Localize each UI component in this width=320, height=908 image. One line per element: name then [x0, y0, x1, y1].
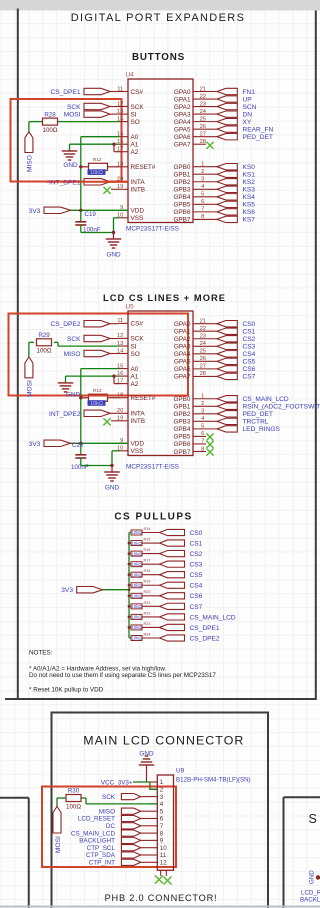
svg-text:GPB3: GPB3 — [173, 419, 190, 426]
pin 17 A2 — [119, 383, 129, 385]
svg-text:CS_MAIN_LCD: CS_MAIN_LCD — [190, 614, 236, 621]
wire A0 — [81, 136, 119, 138]
net flag KS5 — [217, 201, 237, 207]
net flag MOSI — [110, 113, 119, 115]
svg-text:GPA5: GPA5 — [174, 359, 191, 366]
wire R28 to MISO flag — [29, 121, 43, 123]
svg-text:TRCTRL: TRCTRL — [243, 419, 269, 426]
pin 15 A0 — [119, 368, 129, 370]
net flag CS_DPE1 — [110, 91, 119, 93]
svg-text:CS6: CS6 — [190, 593, 203, 600]
wire to flag — [142, 584, 160, 586]
op-amp/IC U5 body — [128, 311, 193, 456]
svg-text:GPA6: GPA6 — [174, 366, 191, 373]
sheet 1 frame left border — [17, 9, 19, 701]
svg-text:CS PULLUPS: CS PULLUPS — [114, 512, 192, 523]
svg-text:CS1: CS1 — [243, 329, 256, 336]
net flag CS_DPE2 — [110, 323, 119, 325]
svg-text:100Ω: 100Ω — [66, 803, 81, 810]
no-connect X on GPA7 — [206, 142, 213, 149]
svg-text:CS2: CS2 — [190, 551, 203, 558]
resistor R16 10k pullup — [129, 553, 131, 555]
net flag MISO (connector) — [141, 810, 149, 812]
svg-text:GPA5: GPA5 — [174, 126, 191, 133]
svg-text:LED_RINGS: LED_RINGS — [243, 426, 281, 433]
junction GND — [112, 231, 115, 234]
net flag CS5 — [217, 358, 237, 364]
net flag CTP_SDA (connector) — [141, 854, 149, 856]
wire C19 to GND — [81, 232, 114, 234]
wire to flag — [142, 574, 160, 576]
svg-text:R20: R20 — [144, 590, 151, 594]
svg-text:GPB5: GPB5 — [173, 202, 190, 209]
resistor R12 10k reset pullup — [81, 166, 89, 168]
no-connect X marks on mounting pins — [155, 876, 163, 884]
svg-text:MAIN LCD CONNECTOR: MAIN LCD CONNECTOR — [83, 734, 244, 748]
svg-text:R13: R13 — [93, 388, 102, 393]
svg-text:CS5: CS5 — [190, 572, 203, 579]
highlight box section 2 — [9, 314, 189, 396]
svg-text:MOSI: MOSI — [64, 112, 81, 119]
svg-text:U5: U5 — [126, 304, 135, 311]
net flag CS_MAIN_LCD (connector) — [141, 832, 149, 834]
svg-text:CS#: CS# — [131, 89, 144, 96]
svg-text:KS3: KS3 — [243, 187, 256, 194]
net flag CS5 (pullup) — [160, 572, 185, 578]
svg-text:6: 6 — [160, 816, 164, 823]
resistor R22 10k pullup — [129, 616, 131, 618]
resistor R24 10k pullup — [129, 637, 131, 639]
svg-text:GPB6: GPB6 — [173, 209, 190, 216]
svg-text:4: 4 — [160, 801, 164, 808]
sheet 2 frame right border — [267, 712, 269, 908]
svg-text:VCC_3V3+: VCC_3V3+ — [101, 779, 133, 786]
bracket wire A1-A2 — [113, 144, 115, 152]
resistor R15 10k pullup — [129, 542, 131, 544]
svg-text:CS1: CS1 — [190, 540, 203, 547]
svg-text:R12: R12 — [93, 157, 102, 162]
net flag 3V3 (section1) — [71, 209, 129, 211]
neighbour sheet frame bottom-left — [0, 797, 29, 799]
svg-text:GPB4: GPB4 — [173, 426, 190, 433]
pin 19 INTB — [119, 420, 129, 422]
svg-text:A2: A2 — [131, 149, 139, 156]
bracket wire A1-A2 (U5) — [113, 376, 115, 384]
svg-text:GND: GND — [106, 252, 121, 259]
svg-text:A1: A1 — [131, 373, 139, 380]
svg-text:GPA1: GPA1 — [174, 96, 191, 103]
net flag CS7 — [217, 373, 237, 379]
svg-text:SCK: SCK — [131, 104, 145, 111]
svg-text:GPB3: GPB3 — [173, 187, 190, 194]
highlight box section 4 — [42, 787, 176, 868]
ground symbol near A1 — [62, 150, 78, 152]
highlighted wire INT_DPE1 to pin 20 INTA — [84, 181, 128, 183]
svg-text:DIGITAL PORT EXPANDERS: DIGITAL PORT EXPANDERS — [71, 12, 246, 24]
svg-text:10kΩ: 10kΩ — [90, 401, 103, 407]
wire A1 to GND (U5) — [66, 375, 120, 377]
svg-text:GPA3: GPA3 — [174, 111, 191, 118]
svg-text:KS6: KS6 — [243, 209, 256, 216]
svg-text:A1: A1 — [131, 142, 139, 149]
pin 12 SCK — [119, 337, 129, 339]
svg-text:CS_MAIN_LCD: CS_MAIN_LCD — [71, 830, 116, 837]
pin 17 A2 — [119, 151, 129, 153]
svg-text:CTP_SDA: CTP_SDA — [86, 852, 116, 859]
no-connect X on GPB5 — [206, 433, 213, 440]
svg-text:CS4: CS4 — [243, 351, 256, 358]
svg-text:BACKLIGHT: BACKLIGHT — [79, 838, 115, 845]
svg-text:RESET#: RESET# — [131, 164, 156, 171]
svg-text:R30: R30 — [68, 788, 80, 795]
svg-text:GPB5: GPB5 — [173, 434, 190, 441]
svg-text:CS_DPE1: CS_DPE1 — [190, 625, 220, 632]
highlight box section 1 — [11, 99, 122, 182]
net flag CTP_INT (connector) — [141, 861, 149, 863]
mounting stubs S1 S2 — [160, 870, 162, 876]
pin 12 SCK — [119, 106, 129, 108]
svg-text:MCP23S17T-E/SS: MCP23S17T-E/SS — [126, 226, 179, 233]
svg-text:GPA2: GPA2 — [174, 336, 191, 343]
wire to flag — [142, 626, 160, 628]
svg-text:CS5: CS5 — [243, 359, 256, 366]
svg-text:R19: R19 — [144, 580, 151, 584]
svg-text:GPB4: GPB4 — [173, 194, 190, 201]
net flag INT_DPE2 — [110, 412, 119, 414]
net flag KS7 — [217, 216, 237, 222]
sheet 1 frame right border — [315, 11, 317, 700]
svg-text:KS7: KS7 — [243, 217, 256, 224]
net flag DN — [217, 111, 237, 117]
svg-text:CS_DPE1: CS_DPE1 — [50, 89, 80, 96]
svg-text:INTB: INTB — [131, 418, 146, 425]
svg-text:B12B-PH-SM4-TB(LF)(SN): B12B-PH-SM4-TB(LF)(SN) — [176, 777, 251, 784]
svg-text:SO: SO — [131, 119, 140, 126]
net flag LED_RINGS — [217, 426, 237, 432]
svg-text:R17: R17 — [144, 559, 151, 563]
window bottom edge — [0, 906, 320, 908]
net flag CS3 (pullup) — [160, 561, 185, 567]
svg-text:SCK: SCK — [67, 336, 81, 343]
net flag KS3 — [217, 186, 237, 192]
sheet 2 frame left border — [51, 712, 53, 908]
svg-text:GPB6: GPB6 — [173, 441, 190, 448]
svg-text:SCK: SCK — [67, 104, 81, 111]
svg-text:10kΩ: 10kΩ — [131, 625, 142, 630]
resistor R28 — [43, 118, 58, 125]
resistor R20 10k pullup — [129, 595, 131, 597]
junction on A1 — [112, 143, 115, 146]
connector U9 body — [157, 775, 173, 870]
svg-text:DN: DN — [243, 111, 253, 118]
svg-text:11: 11 — [160, 852, 167, 859]
pin 6 of U9 — [149, 818, 157, 820]
net flag CS4 — [217, 351, 237, 357]
pin 9 of U9 — [149, 839, 157, 841]
svg-text:Do not need to use them if usi: Do not need to use them if using separat… — [29, 672, 216, 679]
pin 8 of U9 — [149, 832, 157, 834]
wire to flag — [142, 595, 160, 597]
net flag REAR_FN — [217, 126, 237, 132]
pin 1 of U9 — [149, 781, 157, 783]
net flag CS_DPE2 (pullup) — [160, 635, 185, 641]
svg-text:10kΩ: 10kΩ — [131, 530, 142, 535]
svg-text:5: 5 — [160, 808, 164, 815]
pin 4 of U9 — [149, 803, 157, 805]
op-amp/IC U4 body — [128, 79, 193, 223]
wire VSS down — [114, 217, 120, 219]
pin 11 CS# — [119, 322, 129, 324]
svg-text:A0: A0 — [131, 366, 139, 373]
svg-text:CS_DPE2: CS_DPE2 — [190, 635, 220, 642]
no-connect X on GPB6 — [206, 441, 213, 448]
svg-text:CS6: CS6 — [243, 366, 256, 373]
svg-text:3: 3 — [160, 794, 164, 801]
svg-text:GPA7: GPA7 — [174, 374, 191, 381]
svg-text:PED_DET: PED_DET — [243, 134, 273, 141]
pin 3 of U9 — [149, 796, 157, 798]
svg-text:RESET#: RESET# — [131, 395, 156, 402]
svg-text:GND: GND — [66, 392, 81, 399]
resistor R18 10k pullup — [129, 574, 131, 576]
svg-text:DC: DC — [106, 823, 116, 830]
net flag PED_DET — [217, 133, 237, 139]
net flag SCK (connector) — [141, 796, 149, 798]
net flag CS6 — [217, 366, 237, 372]
ground symbol section1 bottom — [113, 233, 115, 239]
svg-text:KS1: KS1 — [243, 172, 256, 179]
resistor R17 10k pullup — [129, 563, 131, 565]
net flag SCK — [110, 106, 119, 108]
svg-text:SCN: SCN — [243, 104, 257, 111]
svg-text:VDD: VDD — [131, 441, 145, 448]
svg-text:R22: R22 — [144, 611, 151, 615]
svg-text:GPB0: GPB0 — [173, 164, 190, 171]
svg-text:SO: SO — [131, 351, 140, 358]
svg-text:U4: U4 — [126, 72, 135, 79]
svg-text:GPA4: GPA4 — [174, 351, 191, 358]
svg-text:GPA6: GPA6 — [174, 134, 191, 141]
svg-text:R18: R18 — [144, 569, 151, 573]
svg-text:CS2: CS2 — [243, 336, 256, 343]
svg-text:MISO: MISO — [27, 155, 34, 172]
net flag KS4 — [217, 194, 237, 200]
svg-text:CS7: CS7 — [243, 374, 256, 381]
net flag FN1 — [217, 88, 237, 94]
svg-text:1: 1 — [160, 779, 164, 786]
junction VDD rail — [79, 209, 82, 212]
net flag CS1 (pullup) — [160, 540, 185, 546]
svg-text:10kΩ: 10kΩ — [131, 572, 142, 577]
svg-text:R21: R21 — [144, 601, 151, 605]
resistor R14 10k pullup — [129, 532, 131, 534]
net flag CS1 — [217, 328, 237, 334]
svg-text:SI: SI — [131, 343, 137, 350]
svg-text:CS0: CS0 — [190, 530, 203, 537]
svg-text:GPA0: GPA0 — [174, 321, 191, 328]
svg-text:CS4: CS4 — [190, 583, 203, 590]
net flag KS1 — [217, 171, 237, 177]
resistor R13 10k reset pullup (U5) — [81, 397, 89, 399]
pin 7 of U9 — [149, 825, 157, 827]
svg-text:R14: R14 — [144, 527, 151, 531]
svg-text:3V3: 3V3 — [61, 587, 73, 594]
no-connect X on GPB7 — [206, 448, 213, 455]
pin 18 RESET# — [119, 166, 129, 168]
pin 15 A0 — [119, 136, 129, 138]
svg-text:10kΩ: 10kΩ — [131, 551, 142, 556]
3V3 bus for pullups — [128, 533, 130, 639]
svg-text:SI: SI — [131, 111, 137, 118]
svg-text:SCK: SCK — [102, 794, 116, 801]
ground symbol near A1 (U5) — [58, 382, 74, 384]
svg-text:NOTES:: NOTES: — [29, 650, 53, 657]
pin 10 VSS — [119, 217, 129, 219]
resistor R29 — [29, 341, 34, 343]
svg-text:BACKLIGHT: BACKLIGHT — [300, 897, 320, 904]
svg-text:R16: R16 — [144, 548, 151, 552]
svg-text:CS#: CS# — [131, 321, 144, 328]
highlighted net INT_DPE1 overlay — [46, 181, 128, 183]
resistor R21 10k pullup — [129, 605, 131, 607]
net flag 3V3 (pullups) — [103, 589, 129, 591]
svg-text:CS_MAIN_LCD: CS_MAIN_LCD — [243, 396, 289, 403]
pin 2 of U9 — [149, 788, 157, 790]
svg-text:VSS: VSS — [131, 215, 144, 222]
svg-text:CS3: CS3 — [243, 344, 256, 351]
net flag INT_DPE1 — [84, 179, 110, 185]
pin 20 INTA — [119, 412, 129, 414]
svg-text:U9: U9 — [176, 768, 185, 775]
svg-text:INT_DPE2: INT_DPE2 — [49, 411, 81, 418]
svg-text:GPB0: GPB0 — [173, 396, 190, 403]
junction RESET pullup — [79, 165, 82, 168]
svg-text:LCD_RESET: LCD_RESET — [301, 890, 320, 897]
net flag CS0 (pullup) — [160, 529, 185, 535]
net flag CS_MAIN_LCD (pullup) — [160, 614, 185, 620]
svg-text:* Reset 10K pullup to VDD: * Reset 10K pullup to VDD — [29, 687, 104, 694]
wire A0 (U5) — [81, 368, 119, 370]
svg-text:10kΩ: 10kΩ — [131, 594, 142, 599]
net flag MOSI (vertical, connector) — [53, 807, 61, 834]
svg-text:GPB2: GPB2 — [173, 411, 190, 418]
svg-text:10kΩ: 10kΩ — [90, 170, 103, 176]
pin 13 SI — [119, 345, 129, 347]
svg-text:GPB2: GPB2 — [173, 179, 190, 186]
svg-text:GPB1: GPB1 — [173, 404, 190, 411]
svg-text:R28: R28 — [44, 112, 56, 119]
svg-text:R15: R15 — [144, 537, 151, 541]
no-connect X on INTB — [111, 188, 119, 190]
net flag UP — [217, 96, 237, 102]
svg-text:FN1: FN1 — [243, 89, 256, 96]
net flag SCK (section2) — [110, 338, 119, 340]
pin 10 of U9 — [149, 847, 157, 849]
svg-text:CTP_SCL: CTP_SCL — [87, 845, 116, 852]
resistor R23 10k pullup — [129, 626, 131, 628]
net flag DC (connector) — [141, 825, 149, 827]
svg-text:C20: C20 — [72, 442, 84, 449]
svg-text:GPA1: GPA1 — [174, 329, 191, 336]
junction RESET pullup (U5) — [79, 396, 82, 399]
svg-text:KS2: KS2 — [243, 179, 256, 186]
svg-text:INTA: INTA — [131, 179, 146, 186]
svg-text:10kΩ: 10kΩ — [131, 562, 142, 567]
capacitor C20 — [80, 443, 82, 454]
resistor R19 10k pullup — [129, 584, 131, 586]
net flag MISO (section2) — [110, 353, 119, 355]
net flag TRCTRL — [217, 418, 237, 424]
svg-text:BUTTONS: BUTTONS — [132, 52, 185, 63]
wire C20 to GND — [81, 465, 112, 467]
net flag KS2 — [217, 179, 237, 185]
net flag CS0 — [217, 321, 237, 327]
svg-text:LCD CS LINES + MORE: LCD CS LINES + MORE — [103, 293, 226, 303]
svg-text:10kΩ: 10kΩ — [131, 636, 142, 641]
svg-text:GPA2: GPA2 — [174, 104, 191, 111]
net flag SCN — [217, 103, 237, 109]
neighbour sheet frame bottom-right — [284, 796, 320, 798]
pin 14 SO — [119, 353, 129, 355]
svg-text:A0: A0 — [131, 134, 139, 141]
net flag CS2 — [217, 336, 237, 342]
wire SO to R28 — [58, 121, 120, 123]
svg-text:PED_DET: PED_DET — [243, 411, 273, 418]
svg-text:UP: UP — [243, 96, 253, 103]
svg-text:MOSI: MOSI — [27, 380, 34, 397]
net flag CS_DPE1 (pullup) — [160, 624, 185, 630]
svg-text:10: 10 — [160, 845, 167, 852]
svg-text:GND: GND — [105, 485, 120, 492]
svg-text:VDD: VDD — [131, 208, 145, 215]
svg-text:10kΩ: 10kΩ — [131, 583, 142, 588]
pin 12 of U9 — [149, 861, 157, 863]
svg-text:7: 7 — [160, 823, 164, 830]
net flag PED_DET — [217, 411, 237, 417]
wire A1 to GND — [70, 143, 120, 145]
pin 19 INTB — [119, 188, 129, 190]
capacitor C19 — [80, 210, 82, 221]
svg-text:3V3: 3V3 — [29, 208, 41, 215]
svg-text:10kΩ: 10kΩ — [131, 604, 142, 609]
net flag LCD_RESET (connector) — [141, 818, 149, 820]
wire to flag — [142, 542, 160, 544]
pin 5 of U9 — [149, 810, 157, 812]
svg-text:CS_DPE2: CS_DPE2 — [50, 321, 80, 328]
net flag BACKLIGHT (connector) — [141, 839, 149, 841]
wire VSS down (U5) — [112, 450, 119, 452]
pin 13 SI — [119, 113, 129, 115]
pin 11 of U9 — [149, 854, 157, 856]
svg-text:R23: R23 — [144, 622, 151, 626]
svg-text:KS0: KS0 — [243, 164, 256, 171]
svg-text:GPA7: GPA7 — [174, 142, 191, 149]
net flag RSIN_(ADC2_FOOTSWITCH — [217, 403, 237, 409]
wire to flag — [142, 563, 160, 565]
pin 9 VDD — [119, 209, 129, 211]
pin 9 VDD — [119, 442, 129, 444]
svg-text:GPA4: GPA4 — [174, 119, 191, 126]
svg-text:SCK: SCK — [131, 336, 145, 343]
pin 10 VSS — [119, 450, 129, 452]
svg-text:MCP23S17T-E/SS: MCP23S17T-E/SS — [126, 463, 179, 470]
svg-text:CTP_INT: CTP_INT — [89, 860, 115, 867]
wire to flag — [142, 616, 160, 618]
wire A0 down to VDD rail — [80, 137, 82, 211]
svg-text:3V3: 3V3 — [29, 441, 41, 448]
svg-text:INT_DPE1: INT_DPE1 — [49, 179, 81, 186]
svg-text:REAR_FN: REAR_FN — [243, 126, 274, 133]
